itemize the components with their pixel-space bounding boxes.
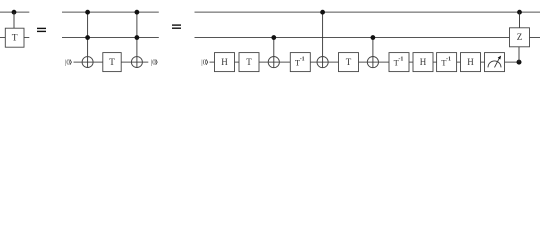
svg-text:H: H <box>221 57 228 67</box>
wire q1 middle circuit <box>62 37 159 39</box>
cnot 1: control q1, vertical wire <box>273 38 275 68</box>
gate T (middle circuit, on ancilla) <box>103 53 121 72</box>
control wire from q0 dot to T gate <box>13 12 15 28</box>
gate Z (on q1) <box>510 28 530 47</box>
cnot 2 target XOR on ancilla <box>317 57 328 68</box>
wire q0 left circuit <box>0 11 29 13</box>
gate T 1 (ancilla) <box>239 53 259 72</box>
equals sign 1 <box>37 28 46 32</box>
toffoli 2 target XOR on ancilla <box>131 57 142 68</box>
toffoli 1 control dot on q0 <box>85 10 90 15</box>
toffoli 2 control dot on q1 <box>135 35 140 40</box>
gate H 3 (ancilla) <box>461 53 481 72</box>
cnot 3: control q1, vertical wire <box>372 38 374 68</box>
wire ancilla middle circuit <box>74 61 149 63</box>
svg-text:|0: |0 <box>65 59 70 67</box>
vertical wire from q0 dot down to Z gate <box>519 12 521 28</box>
cnot 1 control dot on q1 <box>271 35 276 40</box>
svg-text:-1: -1 <box>398 56 403 62</box>
measurement gate (ancilla) <box>485 53 505 72</box>
cnot 2: control q0, vertical wire <box>322 12 324 67</box>
svg-text:-1: -1 <box>300 56 305 62</box>
cnot 3 target XOR on ancilla <box>367 57 378 68</box>
svg-text:T: T <box>12 33 18 43</box>
gate T 2 (ancilla) <box>339 53 359 72</box>
wire q1 left circuit <box>0 37 29 39</box>
ket |0> label ancilla (right circuit) <box>201 59 207 67</box>
wire q0 middle circuit <box>62 11 159 13</box>
svg-text:|0: |0 <box>151 59 156 67</box>
toffoli 2 vertical wire <box>136 12 138 67</box>
svg-text:-1: -1 <box>446 56 451 62</box>
gate T-inverse 1 (ancilla) <box>290 53 310 72</box>
wire ancilla right circuit <box>210 61 520 63</box>
svg-text:T: T <box>246 57 252 67</box>
control dot on q0 (left circuit) <box>12 10 17 15</box>
ket |0> label left of ancilla wire (middle circuit) <box>65 59 71 67</box>
cnot 2 control dot on q0 <box>320 10 325 15</box>
toffoli 2 control dot on q0 <box>135 10 140 15</box>
toffoli 1 control dot on q1 <box>85 35 90 40</box>
wire q1 right circuit <box>195 37 540 39</box>
gate T-inverse 2 (ancilla) <box>389 53 409 72</box>
svg-text:H: H <box>467 57 474 67</box>
classical control dot at end of ancilla wire <box>517 60 522 65</box>
svg-text:|0: |0 <box>201 59 206 67</box>
equals sign 2 <box>172 24 181 29</box>
gate H 2 (ancilla) <box>413 53 433 72</box>
vertical wire from ancilla dot up to Z gate <box>518 47 520 62</box>
toffoli 1 vertical wire <box>87 12 89 67</box>
gate H 1 (ancilla) <box>215 53 235 72</box>
cnot 3 control dot on q1 <box>371 35 376 40</box>
toffoli 1 target XOR on ancilla <box>82 57 93 68</box>
gate T (left circuit, on q1) <box>5 28 24 47</box>
svg-text:T: T <box>346 57 352 67</box>
svg-text:T: T <box>109 58 115 68</box>
control dot on q0 for Z gate <box>517 10 522 15</box>
svg-text:Z: Z <box>517 32 523 42</box>
cnot 1 target XOR on ancilla <box>268 57 279 68</box>
svg-text:H: H <box>420 57 427 67</box>
gate T-inverse 3 (ancilla) <box>437 53 457 72</box>
wire q0 right circuit <box>195 11 540 13</box>
ket |0> label right of ancilla wire (middle circuit) <box>151 59 157 67</box>
